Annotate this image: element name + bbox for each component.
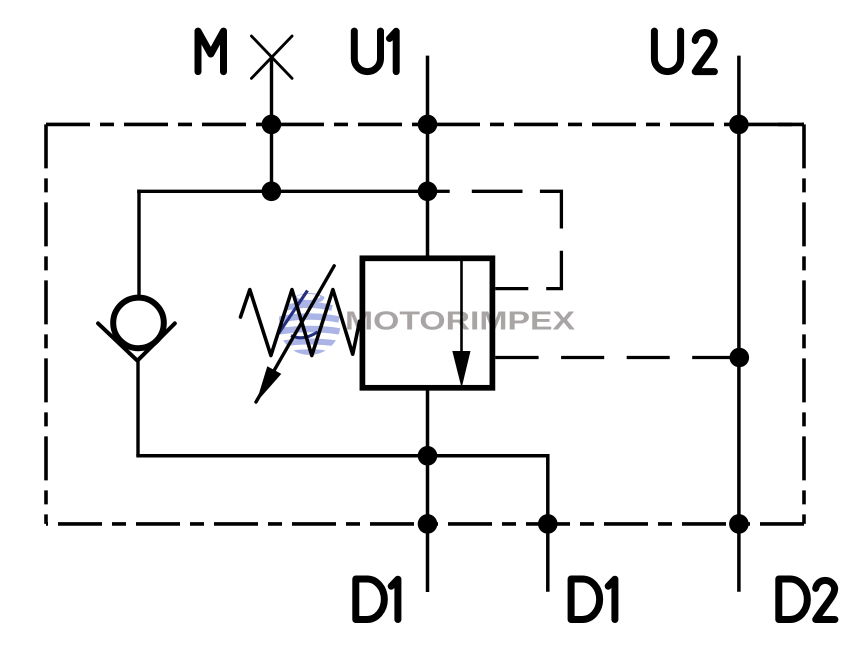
port label U1 xyxy=(354,31,396,72)
wire check valve upper branch xyxy=(137,190,140,299)
wire check valve lower branch xyxy=(136,361,139,456)
drain line dashed segment b xyxy=(561,356,604,359)
junction dot D2 boundary xyxy=(729,514,749,534)
watermark navy diagonal xyxy=(279,291,308,334)
pilot line dashed segment e xyxy=(495,287,528,290)
wire U1 vertical upper xyxy=(426,56,430,259)
pilot line dashed segment b xyxy=(472,190,523,193)
port label M xyxy=(198,31,224,72)
check valve ball circle xyxy=(113,298,164,349)
relief valve flow arrow head xyxy=(452,351,470,388)
junction dot D1 mid xyxy=(418,446,438,466)
junction dot M branch xyxy=(262,182,282,202)
wire bottom horizontal to D1 xyxy=(136,456,548,592)
junction dot D1b boundary xyxy=(538,514,558,534)
check valve seat V xyxy=(98,323,175,360)
plugged port X symbol xyxy=(251,36,292,78)
pilot line dashed corner d xyxy=(546,251,561,289)
junction dot U1 branch xyxy=(418,182,438,202)
wire horizontal M-to-U1 xyxy=(137,190,427,193)
wire M plug vertical xyxy=(270,57,273,191)
junction dot M boundary xyxy=(262,115,282,135)
boundary box dash-dot bottom xyxy=(46,522,804,526)
boundary box dash-dot left xyxy=(44,124,48,524)
junction dot D1 boundary xyxy=(418,514,438,534)
boundary box dash-dot right xyxy=(802,124,806,524)
adjustment arrow shaft xyxy=(256,266,334,402)
watermark globe logo xyxy=(279,291,341,354)
svg-text:MOTORIMPEX: MOTORIMPEX xyxy=(345,308,575,336)
pilot line dashed corner c xyxy=(540,191,562,228)
relief valve flow arrow shaft xyxy=(460,261,463,376)
wire U1 vertical lower xyxy=(426,388,430,592)
relief valve spring xyxy=(241,290,360,356)
boundary box corner patch top-right xyxy=(778,123,804,127)
pilot line dashed segment a xyxy=(437,190,450,193)
port label D1 left xyxy=(356,579,398,620)
port label D1 right xyxy=(571,579,615,620)
drain line dashed segment c xyxy=(627,356,670,359)
junction dot U1 boundary xyxy=(418,115,438,135)
relief valve body square xyxy=(362,258,492,388)
port label U2 xyxy=(654,31,714,72)
adjustment arrow head xyxy=(256,366,281,402)
wire U2-D2 vertical xyxy=(737,56,741,592)
drain line dashed segment d xyxy=(692,356,731,359)
port label D2 xyxy=(779,579,835,620)
boundary box dash-dot top xyxy=(46,123,804,127)
junction dot drain U2 xyxy=(730,348,750,368)
junction dot U2 boundary xyxy=(729,115,749,135)
drain line dashed segment a xyxy=(495,356,538,359)
